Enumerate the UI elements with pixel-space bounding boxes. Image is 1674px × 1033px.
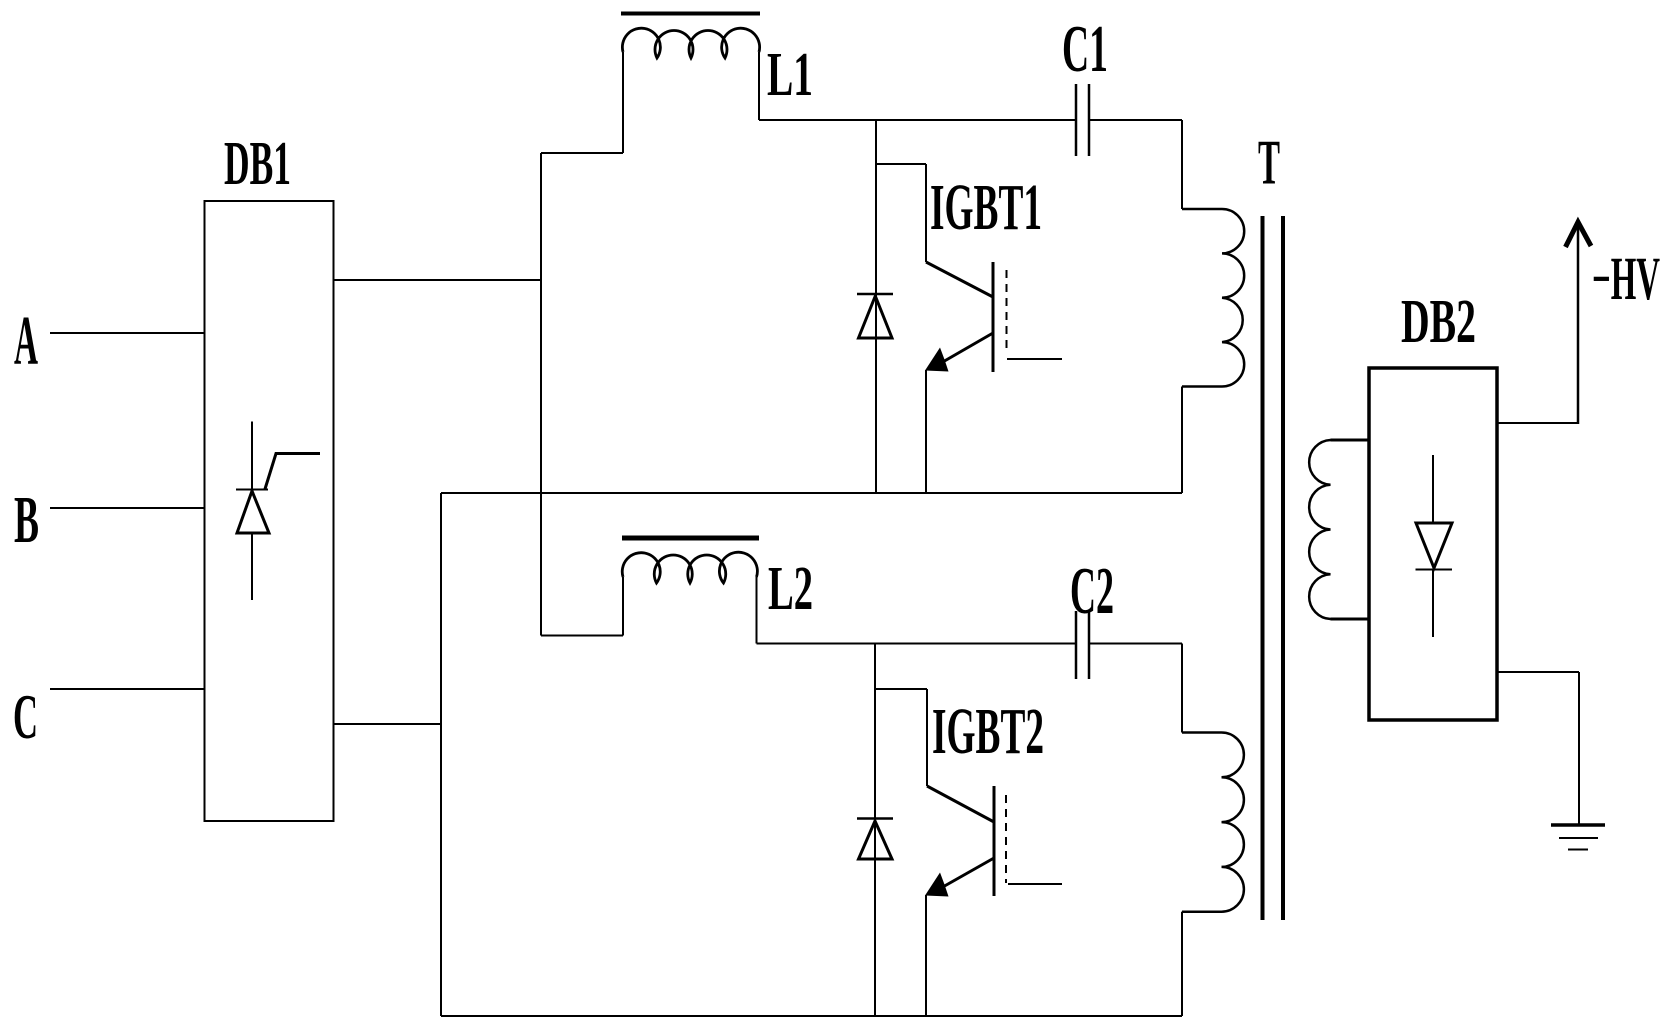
wire IGBT1 gate lead bbox=[1007, 358, 1062, 360]
wire DB1 bottom output bbox=[334, 723, 441, 725]
wire DB1 top output bbox=[334, 279, 541, 281]
transistor IGBT1 emitter diagonal bbox=[941, 333, 993, 363]
wire L2 left lead vertical bbox=[622, 577, 624, 636]
wire IGBT1 collector tap bbox=[876, 163, 926, 165]
wire positive bus vertical bbox=[540, 153, 542, 636]
wire L1 right lead vertical bbox=[758, 52, 760, 120]
transformer T primary 2 top lead bbox=[1182, 731, 1222, 734]
node C input line bbox=[50, 688, 204, 690]
wire L2 left lead horizontal bbox=[541, 635, 623, 637]
inductor L2 core bar bbox=[622, 536, 759, 541]
diode in DB2: bottom lead bbox=[1432, 569, 1434, 637]
diode D2 cathode bar bbox=[857, 817, 893, 820]
thyristor inside DB1: anode lead bbox=[251, 533, 253, 600]
wire IGBT1 collector vertical bbox=[925, 164, 927, 262]
transformer T secondary bottom lead bbox=[1331, 618, 1370, 621]
ground bar 3 bbox=[1568, 849, 1588, 851]
svg-text:T: T bbox=[1258, 128, 1280, 198]
wire primary-1 return bus bbox=[441, 492, 1182, 494]
capacitor C2 right plate bbox=[1088, 611, 1091, 679]
wire IGBT2 collector tap bbox=[875, 688, 927, 690]
ground bar 2 bbox=[1559, 837, 1598, 839]
-HV arrowhead bbox=[1566, 222, 1592, 247]
wire transformer primary1 top vertical bbox=[1181, 120, 1183, 209]
transformer T primary 1 bottom lead bbox=[1182, 385, 1222, 388]
capacitor C2 left plate bbox=[1075, 611, 1078, 679]
svg-text:IGBT2: IGBT2 bbox=[932, 695, 1044, 768]
diode in DB2: bar bbox=[1416, 569, 1453, 571]
svg-text:−HV: −HV bbox=[1592, 246, 1660, 313]
wire diode1 branch vertical bbox=[875, 120, 877, 493]
wire IGBT2 emitter vertical bbox=[925, 895, 927, 1016]
inductor L1 winding bbox=[622, 28, 759, 58]
transformer T primary 2 bottom lead bbox=[1182, 910, 1222, 913]
wire branch2 top rail bbox=[757, 643, 1077, 645]
svg-text:IGBT1: IGBT1 bbox=[930, 171, 1042, 244]
diode D1 cathode bar bbox=[857, 293, 893, 296]
transformer T primary 2 winding bbox=[1222, 733, 1244, 912]
inductor L2 winding bbox=[622, 552, 757, 583]
transformer T core left line bbox=[1261, 216, 1265, 920]
wire IGBT2 collector vertical bbox=[926, 689, 928, 786]
transformer T primary 1 winding bbox=[1222, 209, 1244, 387]
svg-text:C: C bbox=[13, 681, 38, 752]
ground bar 1 bbox=[1551, 823, 1605, 827]
thyristor gate bbox=[265, 454, 320, 490]
diode D1 triangle bbox=[859, 296, 893, 338]
node A input line bbox=[50, 332, 204, 334]
inductor L1 core bar bbox=[621, 12, 760, 16]
thyristor triangle bbox=[237, 491, 269, 533]
wire IGBT1 emitter vertical bbox=[925, 370, 927, 493]
svg-text:L2: L2 bbox=[768, 555, 813, 623]
transistor IGBT2 bar bbox=[993, 786, 996, 896]
transformer T secondary winding bbox=[1309, 440, 1330, 619]
wire branch1 top rail bbox=[759, 119, 1076, 121]
svg-text:DB2: DB2 bbox=[1401, 288, 1476, 356]
transistor IGBT1 collector diagonal bbox=[926, 262, 993, 297]
thyristor cathode bar bbox=[236, 489, 268, 491]
diode in DB2: top lead bbox=[1432, 455, 1434, 523]
svg-text:C1: C1 bbox=[1062, 12, 1108, 86]
node B input line bbox=[50, 507, 204, 509]
capacitor C1 right plate bbox=[1088, 84, 1091, 156]
transistor IGBT2 collector diagonal bbox=[927, 786, 994, 822]
transistor IGBT1 gate dashed line bbox=[1006, 270, 1008, 353]
svg-text:C2: C2 bbox=[1070, 554, 1114, 628]
capacitor C1 left plate bbox=[1075, 84, 1078, 156]
wire negative bus vertical bbox=[440, 493, 442, 1016]
svg-text:A: A bbox=[14, 303, 38, 380]
transistor IGBT1 emitter arrowhead bbox=[925, 348, 949, 372]
rectifier DB2 box bbox=[1369, 368, 1497, 720]
transformer T primary 1 top lead bbox=[1182, 208, 1222, 211]
wire primary2 return vertical bbox=[1181, 912, 1183, 1016]
transformer T core right line bbox=[1281, 216, 1285, 920]
transistor IGBT2 gate dashed line bbox=[1005, 795, 1007, 883]
wire diode2 branch vertical bbox=[874, 644, 876, 1017]
wire C1 to transformer bbox=[1089, 119, 1182, 121]
wire IGBT2 gate lead bbox=[1008, 883, 1062, 885]
wire C2 to transformer bbox=[1089, 643, 1182, 645]
transistor IGBT2 emitter arrowhead bbox=[925, 873, 949, 897]
transformer T secondary top lead bbox=[1331, 439, 1370, 442]
thyristor cathode lead bbox=[251, 422, 253, 490]
wire L1 left lead horizontal bbox=[541, 152, 623, 154]
svg-text:L1: L1 bbox=[767, 41, 813, 109]
rectifier DB1 box bbox=[205, 201, 334, 821]
svg-text:DB1: DB1 bbox=[224, 130, 291, 198]
diode in DB2: triangle bbox=[1416, 523, 1452, 568]
transistor IGBT2 emitter diagonal bbox=[941, 858, 994, 888]
diode D2 triangle bbox=[859, 821, 893, 859]
wire primary1 return vertical bbox=[1181, 387, 1183, 494]
wire transformer primary2 top vertical bbox=[1181, 644, 1183, 733]
transistor IGBT1 bar bbox=[992, 262, 995, 372]
wire bottom bus bbox=[441, 1015, 1182, 1017]
svg-text:B: B bbox=[14, 483, 39, 557]
wire DB2 output bottom bbox=[1497, 671, 1579, 673]
wire -HV arrow shaft bbox=[1577, 226, 1580, 424]
wire to ground bbox=[1578, 672, 1580, 825]
wire DB2 output top bbox=[1497, 422, 1578, 424]
wire L1 left lead vertical bbox=[622, 52, 624, 153]
wire L2 right lead vertical bbox=[756, 577, 758, 644]
